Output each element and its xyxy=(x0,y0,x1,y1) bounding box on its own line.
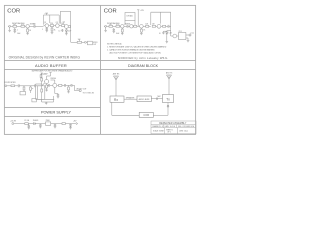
wire COR to TX xyxy=(153,103,168,116)
ground xyxy=(39,127,42,129)
ground rail xyxy=(45,102,48,105)
box component on rail xyxy=(32,99,36,102)
divider power band top xyxy=(4,106,100,108)
transistor Q14 xyxy=(157,24,161,28)
wire xyxy=(15,85,19,87)
wire xyxy=(113,25,116,27)
transistor Q2 xyxy=(44,24,49,28)
capacitor C11 xyxy=(113,28,115,31)
svg-text:TO TX MIC IN: TO TX MIC IN xyxy=(83,93,95,95)
resistor R28 xyxy=(57,85,65,87)
wire left drop xyxy=(36,84,42,99)
ground xyxy=(54,127,57,129)
ground xyxy=(46,31,49,33)
svg-text:.1: .1 xyxy=(17,29,18,31)
svg-text:REPEATER ASSEMBLY: REPEATER ASSEMBLY xyxy=(159,122,186,125)
box label level xyxy=(20,92,26,95)
ground xyxy=(121,33,124,35)
capacitor C2 xyxy=(34,25,35,28)
capacitor C12 xyxy=(127,25,128,28)
antenna RX xyxy=(114,76,119,96)
connector J1 xyxy=(8,25,11,27)
wire xyxy=(19,85,24,87)
svg-text:SHEET 1: SHEET 1 xyxy=(166,129,173,131)
resistor R6 xyxy=(59,25,64,27)
ground xyxy=(113,31,116,33)
capacitor C24 xyxy=(65,84,66,87)
svg-text:MODIFIED by John Lukasky W5JL: MODIFIED by John Lukasky W5JL xyxy=(118,56,168,60)
svg-text:AUDIO BUFF: AUDIO BUFF xyxy=(139,98,151,101)
connector J3 xyxy=(104,25,107,27)
zener D11 xyxy=(166,31,171,35)
connector circle J2 xyxy=(85,41,87,43)
resistor R15 vertical xyxy=(141,28,143,33)
svg-text:COR: COR xyxy=(7,8,20,14)
wire input buffer xyxy=(7,85,11,87)
power flag +12V buffer xyxy=(41,73,43,77)
resistor R14 xyxy=(133,25,140,27)
resistor R29 vertical xyxy=(68,85,70,91)
connector J4 right xyxy=(186,34,191,41)
resistor R17 xyxy=(152,25,157,27)
svg-text:RCVR SPKR: RCVR SPKR xyxy=(5,82,17,84)
svg-text:DIAGRAM BLOCK: DIAGRAM BLOCK xyxy=(128,64,159,68)
ground input J1 xyxy=(8,27,11,32)
wire xyxy=(35,25,44,27)
svg-text:OUT: OUT xyxy=(93,44,96,46)
wire output drop xyxy=(75,85,80,90)
wire buffer to TX xyxy=(151,98,162,100)
potentiometer RV1 xyxy=(77,40,84,43)
resistor R1 xyxy=(13,25,17,27)
potentiometer R25 xyxy=(30,86,34,93)
svg-text:ADJ R10 FOR BEST COR SENSITIVI: ADJ R10 FOR BEST COR SENSITIVITY AND AUD… xyxy=(110,51,162,54)
wire xyxy=(107,25,110,27)
relay K1 xyxy=(177,33,186,40)
capacitor C3 xyxy=(46,27,48,30)
svg-text:2. CAPACITORS IN MICROFARADS U: 2. CAPACITORS IN MICROFARADS UNLESS MARK… xyxy=(107,48,155,51)
svg-text:1. RESISTORS ARE 1/4W 5%, VALU: 1. RESISTORS ARE 1/4W 5%, VALUES IN OHMS… xyxy=(107,45,167,48)
title block vline row2 a xyxy=(163,125,165,128)
svg-text:Q3: Q3 xyxy=(56,22,58,24)
svg-text:2N3904: 2N3904 xyxy=(50,78,56,80)
svg-text:NOTES: (REV A): NOTES: (REV A) xyxy=(107,42,122,45)
ground input J3 xyxy=(104,27,107,32)
svg-text:22K: 22K xyxy=(152,24,155,26)
svg-text:1K: 1K xyxy=(143,30,145,32)
transistor Q4 xyxy=(65,25,69,29)
capacitor mic coupling xyxy=(155,98,158,100)
connector PTT circle xyxy=(167,105,169,107)
svg-text:10: 10 xyxy=(159,33,161,35)
block RX xyxy=(110,96,124,102)
wire input xyxy=(11,25,14,27)
svg-text:10uF: 10uF xyxy=(17,33,21,35)
transistor Q12 xyxy=(128,25,133,28)
wire RX to COR xyxy=(112,102,139,115)
transistor Q22 xyxy=(51,80,57,87)
connector J22 output xyxy=(79,90,81,92)
feedback loop wire xyxy=(60,11,70,25)
resistor R26 vertical xyxy=(41,88,43,102)
svg-text:10: 10 xyxy=(59,30,61,32)
capacitor C22 xyxy=(35,84,36,87)
svg-text:1N4001: 1N4001 xyxy=(33,120,39,122)
capacitor C33 xyxy=(54,124,56,127)
ground xyxy=(65,34,68,36)
svg-text:BUFFER AMP FOR RECEIVER SPEAKE: BUFFER AMP FOR RECEIVER SPEAKER AUDIO xyxy=(32,70,73,73)
capacitor C26 output xyxy=(71,84,75,87)
svg-text:10uF: 10uF xyxy=(116,33,120,35)
svg-text:2N3904: 2N3904 xyxy=(125,23,131,25)
svg-text:1K: 1K xyxy=(54,30,56,32)
wire RX to buffer xyxy=(124,98,137,100)
ground xyxy=(51,32,54,34)
svg-text:POWER SUPPLY: POWER SUPPLY xyxy=(41,110,72,114)
transistor Q13 xyxy=(140,25,144,29)
svg-text:ANT RX: ANT RX xyxy=(113,73,120,76)
title block row line xyxy=(151,127,196,129)
block TX xyxy=(163,95,174,103)
divider vertical center xyxy=(100,5,102,134)
svg-text:DWG: 100-1: DWG: 100-1 xyxy=(179,130,188,132)
svg-text:RY1: RY1 xyxy=(179,31,182,33)
resistor R16 xyxy=(143,25,151,27)
svg-text:Q2: Q2 xyxy=(44,22,46,24)
feedback box xyxy=(125,13,135,26)
resistor R7 xyxy=(68,26,70,28)
ground xyxy=(57,97,60,99)
power flag second xyxy=(49,73,51,77)
resistor R21 vertical xyxy=(40,74,47,78)
wire to base xyxy=(36,83,45,88)
capacitor C4 xyxy=(61,29,63,32)
title block vline row2 b xyxy=(175,125,177,128)
divider title band top xyxy=(4,60,195,62)
fuse F1 xyxy=(25,123,28,125)
resistor R4 xyxy=(49,25,56,27)
ground xyxy=(140,33,143,35)
svg-text:AUDIO OUT: AUDIO OUT xyxy=(77,88,88,91)
regulator U31 xyxy=(40,122,50,125)
title block header line xyxy=(151,124,196,126)
resistor R23 xyxy=(11,85,15,87)
ground buffer mid xyxy=(45,90,48,92)
zener D1 xyxy=(65,28,67,33)
transistor Q3 xyxy=(56,24,60,28)
resistor R24 vertical xyxy=(23,86,25,92)
ground xyxy=(67,92,70,94)
wire xyxy=(14,123,25,125)
svg-text:+13.8V: +13.8V xyxy=(10,120,17,122)
svg-text:OF 1: OF 1 xyxy=(167,132,171,134)
ground xyxy=(187,41,190,43)
svg-text:7808: 7808 xyxy=(46,120,50,122)
ground xyxy=(28,128,31,130)
svg-text:Rx: Rx xyxy=(114,98,118,102)
capacitor C23 xyxy=(47,84,53,87)
svg-text:10: 10 xyxy=(33,23,35,25)
rail V+ right xyxy=(151,12,171,29)
ground xyxy=(26,33,29,35)
capacitor C32 xyxy=(39,124,41,127)
svg-text:ORIGINAL DESIGN by KEVIN CARTE: ORIGINAL DESIGN by KEVIN CARTER W6KG xyxy=(9,56,81,60)
diode D31 xyxy=(34,123,41,125)
ground xyxy=(14,31,17,33)
resistor R3 vertical xyxy=(27,28,29,33)
svg-text:FILE: COR-BUFF.SCH: FILE: COR-BUFF.SCH xyxy=(178,126,195,128)
border frame xyxy=(4,5,195,134)
emitter resistor R27 xyxy=(46,84,48,91)
divider power band bottom xyxy=(4,116,100,118)
resistor R11 xyxy=(109,25,113,27)
wire xyxy=(28,123,33,125)
svg-text:.1: .1 xyxy=(42,29,43,31)
transistor Q1 xyxy=(25,25,30,28)
block COR xyxy=(139,112,153,117)
ground xyxy=(69,128,72,130)
power flag xyxy=(137,10,139,27)
feedback rect xyxy=(38,86,45,100)
transistor Q21 xyxy=(44,76,50,84)
resistor R2 xyxy=(21,25,25,27)
transistor Q15 xyxy=(173,34,177,38)
wire xyxy=(66,84,72,86)
title block vline row3 b xyxy=(177,128,179,134)
capacitor C1 xyxy=(14,28,16,31)
svg-text:COR: COR xyxy=(104,8,117,14)
title block frame xyxy=(151,121,196,134)
wire to output stage xyxy=(171,29,173,36)
resistor R13 vertical xyxy=(121,28,123,33)
svg-text:AUDIO BUFFER: AUDIO BUFFER xyxy=(35,63,67,68)
wire xyxy=(31,85,35,87)
svg-text:COR: COR xyxy=(143,113,149,117)
wire xyxy=(124,25,127,27)
title block vline row3 a xyxy=(163,128,165,134)
capacitor C21 xyxy=(18,84,19,87)
wire xyxy=(24,85,31,87)
svg-text:ANT TX: ANT TX xyxy=(166,72,173,75)
block AUDIO BUFFER xyxy=(137,96,151,102)
rail V+ left xyxy=(44,13,60,25)
resistor R12 xyxy=(116,25,120,27)
connector J31 xyxy=(12,123,14,125)
divider title band bottom xyxy=(4,68,195,70)
capacitor C25 on rail xyxy=(55,87,59,96)
led D32 xyxy=(70,124,72,128)
wire output drop xyxy=(71,25,78,42)
wire out xyxy=(51,123,62,125)
resistor R31 xyxy=(62,123,71,125)
connector J2 output xyxy=(86,41,92,45)
capacitor C31 xyxy=(28,124,30,128)
wire xyxy=(29,25,34,27)
connector J21 xyxy=(5,85,7,87)
resistor R5 vertical xyxy=(51,27,53,33)
capacitor C15 xyxy=(162,31,167,34)
ground xyxy=(166,35,169,43)
wire xyxy=(17,25,21,27)
transistor Q11 xyxy=(120,25,124,28)
svg-text:Tx: Tx xyxy=(166,97,170,101)
capacitor C14 xyxy=(168,25,171,28)
bottom rail buffer xyxy=(36,96,55,102)
antenna TX xyxy=(167,75,172,95)
resistor R22 vertical xyxy=(41,77,43,84)
label +8V out xyxy=(71,123,78,125)
svg-text:+12V: +12V xyxy=(45,13,49,15)
resistor R18 xyxy=(161,25,168,27)
